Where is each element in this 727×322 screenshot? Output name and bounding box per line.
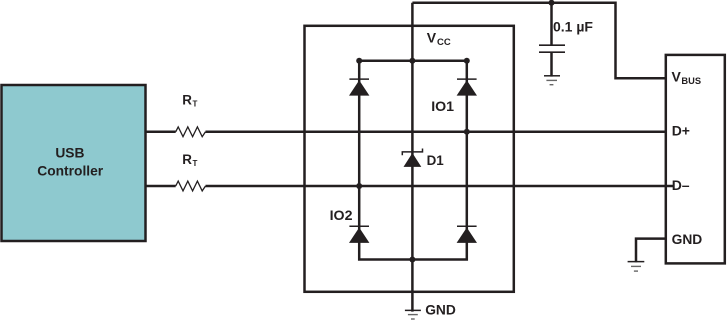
svg-text:IO2: IO2 <box>330 208 353 224</box>
svg-text:V: V <box>672 68 682 84</box>
svg-text:Controller: Controller <box>37 163 104 178</box>
svg-text:GND: GND <box>425 303 456 318</box>
svg-text:USB: USB <box>55 145 84 160</box>
svg-text:0.1 µF: 0.1 µF <box>553 19 593 35</box>
svg-text:GND: GND <box>672 232 703 247</box>
svg-text:D–: D– <box>672 177 690 193</box>
svg-text:V: V <box>427 29 437 45</box>
svg-text:R: R <box>182 152 192 167</box>
svg-text:BUS: BUS <box>681 76 701 86</box>
svg-text:R: R <box>182 93 192 108</box>
svg-text:D+: D+ <box>672 123 690 139</box>
svg-text:T: T <box>193 159 198 168</box>
svg-text:T: T <box>193 100 198 109</box>
svg-text:IO1: IO1 <box>431 99 454 115</box>
svg-text:D1: D1 <box>427 153 445 168</box>
svg-text:CC: CC <box>437 37 451 48</box>
